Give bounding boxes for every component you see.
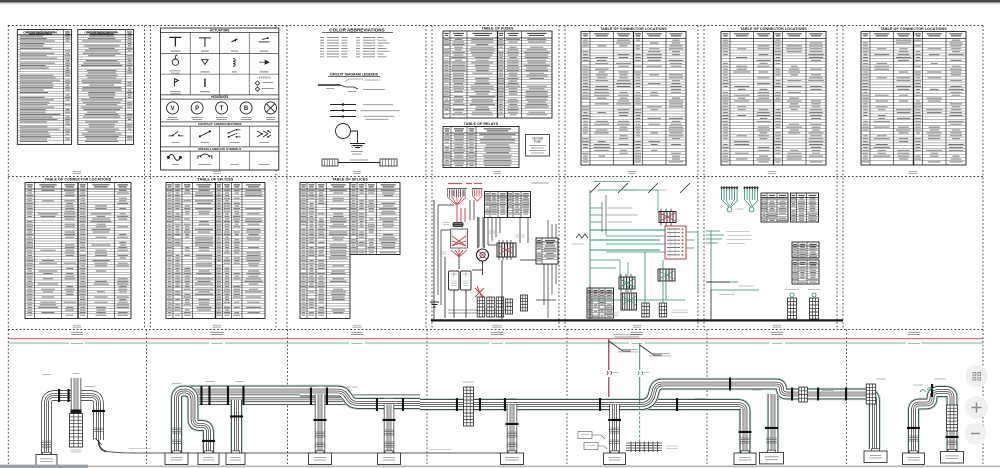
zoom out button <box>965 423 987 445</box>
teal wire callout <box>640 345 662 355</box>
connector box A1 <box>43 452 51 455</box>
svg-text:P: P <box>195 106 199 112</box>
harness drop to box F <box>384 405 394 454</box>
svg-text:TABLE OF FUSES: TABLE OF FUSES <box>481 26 514 30</box>
svg-text:TABLE OF CONNECTOR LOCATIONS: TABLE OF CONNECTOR LOCATIONS <box>45 178 112 182</box>
starter wires black <box>478 217 484 248</box>
connector box K <box>872 449 880 452</box>
rib ticks on drops L M <box>908 436 919 441</box>
cab power rail label <box>613 335 640 337</box>
row1 panel footer labels <box>73 172 81 174</box>
contact configuration symbols <box>189 126 191 147</box>
relay K1 pin stubs <box>499 240 511 260</box>
harness bundle from box L <box>914 392 953 454</box>
component K4 green <box>658 269 675 281</box>
connector box G <box>508 451 516 454</box>
dotted divider between row2 and row3 <box>8 329 983 331</box>
zoom in button <box>965 396 988 419</box>
legend component circle with ground <box>336 124 351 139</box>
panel4 right small table <box>536 238 558 264</box>
svg-text:T: T <box>220 106 224 112</box>
connector ladder row panel4 <box>477 297 485 317</box>
right group labels <box>913 384 923 386</box>
panel6 teal wires to arrows <box>706 231 724 243</box>
connector box H <box>611 451 619 454</box>
harness main run panel5 <box>565 405 745 454</box>
legend connector pair symbol <box>322 159 338 166</box>
connector box D <box>232 451 240 454</box>
ground symbol G1 <box>430 302 439 307</box>
connector box B <box>173 451 181 454</box>
legend ground symbol <box>350 144 365 148</box>
harness bundle A main run <box>47 396 99 455</box>
fuse panel box with red border <box>665 226 686 259</box>
svg-text:LEGENDS: LEGENDS <box>257 76 271 80</box>
actuator lever symbol <box>199 38 211 47</box>
clamp ticks panel5 <box>599 398 601 411</box>
fusible link block <box>453 222 464 227</box>
dotted divider between row1 and row2 <box>8 176 983 178</box>
relay K3 green <box>619 277 635 289</box>
harness bundle B lower stacked run <box>192 394 420 405</box>
green curl details <box>920 388 933 393</box>
breakout hatched mini bundle <box>626 443 662 451</box>
harness branch rising to upper right <box>643 384 735 405</box>
row3 panel header labels above rails <box>71 332 83 334</box>
harness drop to box G <box>507 405 517 454</box>
connector box J <box>768 450 776 453</box>
green rail labels <box>69 342 85 345</box>
actuator key symbol <box>231 39 237 42</box>
red power rail <box>8 338 983 340</box>
teal wire fuse symbol <box>638 371 643 375</box>
panel6 harness labels <box>752 389 762 391</box>
legend header CONTACT CONFIGURATIONS <box>161 122 279 126</box>
svg-text:COLOR ABBREVIATIONS: COLOR ABBREVIATIONS <box>329 28 384 33</box>
schematic bottom ground bus <box>431 319 843 321</box>
ladder connector on box M drop <box>947 405 958 431</box>
connector comb green B <box>744 187 759 189</box>
svg-text:TABLE OF SPLICES: TABLE OF SPLICES <box>332 178 368 182</box>
panel5 lower dense table <box>587 288 614 318</box>
harness drop to box E <box>315 394 325 453</box>
connector box C <box>205 451 213 454</box>
harness main run panel4 <box>420 398 565 410</box>
clamp ticks panel4 run <box>456 398 458 411</box>
svg-text:TABLE OF CONNECTOR LOCATIONS: TABLE OF CONNECTOR LOCATIONS <box>740 27 807 31</box>
red junction fan <box>451 248 467 257</box>
harness run panel5 end labels <box>695 398 706 400</box>
breakout detail boxes with arrows <box>578 432 592 439</box>
legend spliced circuit line <box>330 110 356 112</box>
actuator vacuum symbol <box>259 60 269 64</box>
connector box F <box>385 451 393 454</box>
inline ladder on upper run <box>799 387 808 402</box>
svg-text:ACTUATORS: ACTUATORS <box>210 29 230 33</box>
harness upper run into panel6 <box>735 384 875 449</box>
connector comb J1 with red wires <box>447 188 467 190</box>
solenoid crossing red wires <box>452 236 466 246</box>
vertical dotted panel dividers row 3 <box>146 330 148 465</box>
harness drop to box I <box>740 409 750 449</box>
harness bundle A middle drop <box>71 378 81 413</box>
color abbreviation list left column <box>320 38 348 57</box>
clamp ticks bundle A <box>58 389 60 402</box>
legend header ACTUATORS <box>161 28 279 32</box>
panel5 extra teal wiring <box>590 190 698 292</box>
svg-text:CIRCUIT DESCRIPTION: CIRCUIT DESCRIPTION <box>23 30 57 34</box>
actuator grid lines <box>161 33 279 95</box>
clamp ticks panel3 <box>310 388 312 405</box>
ladder connector before box K <box>866 384 876 404</box>
harness bundle B teal underlay run <box>177 391 341 453</box>
actuator coil symbol <box>233 59 235 66</box>
legend shielded circuit line <box>330 116 356 118</box>
actuator manually operated symbol <box>174 79 178 87</box>
housing circle symbols V P T B and light <box>167 102 179 114</box>
clamp ticks bundle B <box>200 386 202 405</box>
connector box L <box>910 451 918 454</box>
svg-text:TABLE OF RELAYS: TABLE OF RELAYS <box>464 122 499 126</box>
legend header HOUSINGS <box>161 95 279 99</box>
actuator pushbutton symbol <box>204 79 206 88</box>
panel4 far right wires <box>536 220 556 318</box>
actuator toggle symbol <box>169 37 181 46</box>
svg-text:CIRCUIT DIAGRAM LEGENDS: CIRCUIT DIAGRAM LEGENDS <box>330 73 379 77</box>
svg-text:HOUSINGS: HOUSINGS <box>211 95 228 99</box>
table of circuit description left <box>17 30 71 145</box>
bundle B labels <box>172 383 181 385</box>
table of circuit description right <box>78 30 134 145</box>
row2 panel footer labels <box>73 325 82 327</box>
housing labels <box>167 117 179 119</box>
battery B1 <box>449 271 460 290</box>
legend wire with gauge callouts <box>318 84 340 86</box>
panel5 bottom labels <box>597 313 619 315</box>
panel6 ladder connectors <box>790 293 794 297</box>
panel4 wire drops to ground bus <box>434 200 502 318</box>
connector box M <box>948 449 956 452</box>
panel5 left resistor symbol <box>576 234 588 238</box>
legend box frame <box>161 28 279 170</box>
panel4 component labels <box>442 223 449 225</box>
legend grounded circuit line <box>330 104 356 106</box>
comb B eyelet <box>749 207 754 212</box>
schematic panel4 pin table <box>485 192 531 218</box>
svg-text:CIRCUIT DESCRIPTION: CIRCUIT DESCRIPTION <box>84 30 118 34</box>
rib ticks on bundle B drops <box>171 428 182 433</box>
panel6 middle tables <box>792 242 819 258</box>
battery B2 <box>461 271 472 290</box>
maroon wire callout <box>609 341 631 351</box>
rib ticks on bundle A drops <box>41 441 52 448</box>
fuse panel feed wires <box>590 230 666 252</box>
vertical dotted panel dividers rows 1-2 <box>144 26 146 330</box>
panel5 component box dark <box>621 293 637 310</box>
harness bundle B Z-step to box C <box>186 391 209 453</box>
ladder connector A mid <box>70 414 83 448</box>
browser window top edge bar <box>0 0 1000 2</box>
schematic panel5 header label <box>594 181 631 183</box>
maroon wire fuse symbol <box>607 371 612 375</box>
connector box E <box>316 451 324 454</box>
teal accessory wire drop <box>639 343 641 404</box>
bundle A right end fanout arrow <box>99 440 107 452</box>
maroon battery wire drop <box>608 339 610 397</box>
panel3 harness labels <box>316 385 324 387</box>
inline ladder connector panel4 <box>464 387 474 426</box>
bottom window strip <box>0 466 1000 468</box>
relay K1 box <box>497 243 516 257</box>
svg-text:FUSE: FUSE <box>534 140 541 144</box>
teal branch callouts <box>590 208 602 222</box>
rib ticks on drops I J <box>740 438 751 443</box>
svg-text:V: V <box>171 106 175 112</box>
svg-text:TABLE OF CONNECTOR LOCATIONS: TABLE OF CONNECTOR LOCATIONS <box>880 27 947 31</box>
panel5 bottom teal bus <box>590 252 685 303</box>
extension wire from bundle A to panel4 <box>107 452 502 455</box>
harness main run panel3 with step <box>300 391 420 404</box>
actuator liquid level float symbol <box>172 59 178 65</box>
harness bundle B drop D <box>230 400 242 453</box>
color abbreviation list right column <box>356 38 390 57</box>
starter motor circle <box>477 249 489 261</box>
schematic panel4 header labels <box>448 183 482 185</box>
actuator pressure symbol <box>202 60 208 65</box>
harness drop to box J <box>767 394 779 452</box>
svg-text:B: B <box>244 106 249 112</box>
sheet outer dotted border <box>8 25 983 27</box>
panel5 diagonal callouts from top <box>590 183 690 193</box>
teal trunk wire panel5 <box>590 190 666 285</box>
panel6 teal vertical and lower wires <box>706 231 759 290</box>
clamp ticks right group <box>907 427 920 429</box>
rib ticks on drop H <box>609 428 620 433</box>
svg-text:TABLE OF SPLICES: TABLE OF SPLICES <box>198 178 234 182</box>
connector comb J2 red <box>472 188 483 190</box>
panel6 upper tables <box>761 193 788 222</box>
svg-text:TABLE OF CONNECTOR LOCATIONS: TABLE OF CONNECTOR LOCATIONS <box>600 27 667 31</box>
svg-text:MISCELLANEOUS SYMBOLS: MISCELLANEOUS SYMBOLS <box>198 147 241 151</box>
battery red crossover <box>475 286 484 298</box>
relay K2 red black <box>659 212 676 223</box>
clamp ticks panel6 <box>791 388 793 401</box>
connector box I <box>741 451 749 454</box>
panel4 extra black wiring <box>438 200 544 305</box>
wire starter feed red <box>457 205 465 223</box>
legend header MISCELLANEOUS SYMBOLS <box>161 147 279 151</box>
harness drop to box H <box>609 405 619 454</box>
rib ticks on drop G <box>507 432 518 437</box>
solenoid box outline <box>451 229 468 248</box>
rib ticks on drops E F <box>315 432 326 437</box>
table of splices row2 panel3 right half <box>350 183 400 255</box>
connector comb green A <box>721 187 738 189</box>
green ground rail <box>8 342 983 344</box>
comb A eyelet <box>727 207 732 212</box>
panel5 small ladders <box>642 303 650 317</box>
svg-text:CONTACT CONFIGURATIONS: CONTACT CONFIGURATIONS <box>198 122 242 126</box>
bundle A labels <box>42 374 51 376</box>
zoom reset button <box>966 365 988 387</box>
note box beside relay table <box>526 135 550 157</box>
actuator rocker symbol <box>259 37 270 42</box>
miscellaneous symbols fuse circuit-breaker relay fuse-board <box>189 151 191 170</box>
